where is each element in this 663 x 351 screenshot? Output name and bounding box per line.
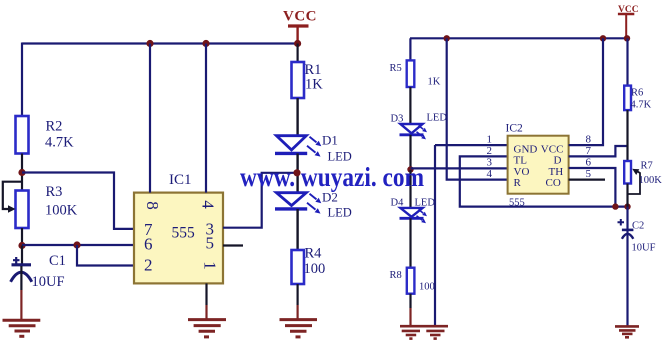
resistor R1 xyxy=(292,44,324,99)
svg-text:IC1: IC1 xyxy=(169,172,192,188)
resistor R4 xyxy=(292,245,326,284)
svg-text:IC2: IC2 xyxy=(506,123,524,135)
svg-text:R3: R3 xyxy=(46,184,63,200)
IC IC1 555 timer xyxy=(134,172,223,283)
wire IC2 pin1 GND to ground xyxy=(434,145,436,326)
ground (C1) xyxy=(3,320,41,336)
wire VO node to IC2 pin3 xyxy=(411,167,508,169)
svg-text:1: 1 xyxy=(487,134,493,146)
wire IC2 pin7 jog to R6/R7 xyxy=(569,146,628,156)
node junction D1-D2 xyxy=(293,169,300,176)
capacitor C1 xyxy=(11,246,66,320)
node junction rail-pin4 xyxy=(202,40,209,47)
svg-text:1K: 1K xyxy=(305,77,323,93)
node junction D3-D4 / VO xyxy=(407,166,413,172)
svg-text:R8: R8 xyxy=(390,270,402,281)
resistor R2 xyxy=(16,116,75,154)
svg-text:LED: LED xyxy=(328,206,352,220)
wire IC2 pin6 down to TL net xyxy=(569,168,616,207)
svg-text:R: R xyxy=(514,177,522,189)
svg-text:4: 4 xyxy=(487,168,493,180)
wire IC1 pin1 to ground xyxy=(205,283,207,305)
IC IC2 555 timer xyxy=(487,123,592,209)
svg-text:100: 100 xyxy=(419,282,435,293)
wire rail corner down to R5 xyxy=(409,38,411,60)
wire rail to IC1 pin4 xyxy=(205,44,207,193)
wire D4 to R8 xyxy=(409,218,411,267)
resistor R5 xyxy=(390,60,441,87)
wire R5 to D3 xyxy=(409,87,411,124)
svg-text:D1: D1 xyxy=(322,133,338,148)
wire IC2 pin5 stub xyxy=(569,179,605,181)
wire junction to IC1 pin7 xyxy=(22,173,134,229)
wire rail to R6 xyxy=(626,38,628,85)
node junction rail-pin4R xyxy=(444,35,450,41)
wire rail to IC1 pin8 xyxy=(149,44,151,193)
svg-text:www. wuyazi. com: www. wuyazi. com xyxy=(240,162,424,192)
svg-text:6: 6 xyxy=(144,235,153,254)
svg-text:VCC: VCC xyxy=(541,143,564,155)
wire IC2 pin8 to rail xyxy=(569,38,603,145)
svg-text:8: 8 xyxy=(143,201,162,210)
node junction pin6-TL xyxy=(612,203,618,209)
svg-text:TL: TL xyxy=(514,155,528,167)
node junction pin2 branch xyxy=(73,241,80,248)
LED D4 xyxy=(391,170,436,223)
wire IC2 pin2 TL wrap xyxy=(460,156,628,206)
svg-text:R5: R5 xyxy=(390,63,402,74)
resistor R8 xyxy=(390,268,435,294)
svg-text:555: 555 xyxy=(172,225,196,242)
svg-text:R6: R6 xyxy=(631,88,643,99)
svg-text:1: 1 xyxy=(201,261,220,270)
svg-text:C1: C1 xyxy=(49,253,66,269)
svg-text:5: 5 xyxy=(206,233,215,252)
LED D3 xyxy=(391,113,448,140)
wire R3 to C1 node xyxy=(21,228,23,246)
node junction rail-VCC2 xyxy=(624,35,630,41)
capacitor C2 xyxy=(618,207,656,326)
wire top rail left xyxy=(22,42,298,44)
potentiometer R3 xyxy=(3,182,78,228)
svg-text:D4: D4 xyxy=(391,198,405,209)
svg-text:4.7K: 4.7K xyxy=(631,100,652,111)
wire IC1 pin3 to LED node xyxy=(223,173,294,228)
svg-text:10UF: 10UF xyxy=(632,243,656,254)
svg-text:6: 6 xyxy=(586,157,592,169)
svg-text:5: 5 xyxy=(586,168,592,180)
wire R4 to ground xyxy=(297,284,299,305)
node junction R3-C1 xyxy=(18,242,25,249)
svg-text:R4: R4 xyxy=(305,245,323,261)
svg-text:4.7K: 4.7K xyxy=(45,135,74,151)
potentiometer R7 xyxy=(624,161,662,195)
svg-text:555: 555 xyxy=(509,198,525,209)
svg-text:2: 2 xyxy=(487,145,493,157)
wire R2 to R3 xyxy=(21,154,23,192)
node junction rail-pin8R xyxy=(600,35,606,41)
node junction R2-R3 xyxy=(18,169,25,176)
power VCC (left) xyxy=(283,9,317,44)
wire R1 to D1 xyxy=(296,98,298,136)
wire R6 to R7 xyxy=(626,110,628,161)
node junction rail-pin8 xyxy=(146,40,153,47)
node junction rail-VCC xyxy=(294,40,301,47)
svg-text:D3: D3 xyxy=(391,114,404,125)
svg-text:R7: R7 xyxy=(641,161,653,172)
wire IC1 pin5 stub xyxy=(223,244,243,246)
wire D3 to D4 node xyxy=(409,135,411,170)
svg-text:2: 2 xyxy=(144,256,153,275)
svg-text:GND: GND xyxy=(514,143,538,155)
svg-text:100K: 100K xyxy=(45,203,78,219)
svg-text:C2: C2 xyxy=(632,221,644,232)
svg-text:D: D xyxy=(554,155,562,167)
LED D2 xyxy=(275,190,352,220)
svg-text:3: 3 xyxy=(487,157,493,169)
wire left vertical top xyxy=(21,43,23,117)
svg-text:CO: CO xyxy=(546,177,561,189)
wire rail to IC2 pin4 xyxy=(447,38,508,179)
svg-text:100K: 100K xyxy=(639,175,663,186)
wire node to IC1 pin6 xyxy=(22,244,134,246)
wire R7 to C2 node xyxy=(626,184,628,207)
svg-text:1K: 1K xyxy=(428,77,441,88)
LED D1 xyxy=(275,133,352,164)
ground (R4) xyxy=(280,320,318,337)
svg-text:R2: R2 xyxy=(46,119,63,135)
svg-text:LED: LED xyxy=(415,198,436,209)
wire D2 to R4 xyxy=(296,209,298,250)
svg-text:4: 4 xyxy=(199,200,218,209)
power VCC (right) xyxy=(618,5,639,38)
svg-text:10UF: 10UF xyxy=(32,274,65,290)
wire R8 to ground xyxy=(409,294,411,308)
ground (IC1) xyxy=(188,320,226,337)
node junction TL-R7 xyxy=(624,203,630,209)
svg-text:VCC: VCC xyxy=(283,9,317,25)
ground (C2) xyxy=(615,326,639,337)
svg-text:100: 100 xyxy=(304,261,326,277)
wire D1 to D2 xyxy=(296,153,298,192)
wire branch to IC1 pin2 xyxy=(77,245,134,266)
svg-text:8: 8 xyxy=(586,134,592,146)
svg-text:TH: TH xyxy=(549,166,564,178)
wire IC2 pin1 xyxy=(435,144,508,146)
ground (R8 + IC2 GND merged) xyxy=(400,326,448,338)
wire top rail right xyxy=(410,37,628,39)
svg-text:LED: LED xyxy=(427,113,448,124)
svg-text:VO: VO xyxy=(514,166,530,178)
resistor R6 xyxy=(624,86,651,111)
svg-text:7: 7 xyxy=(586,145,592,157)
